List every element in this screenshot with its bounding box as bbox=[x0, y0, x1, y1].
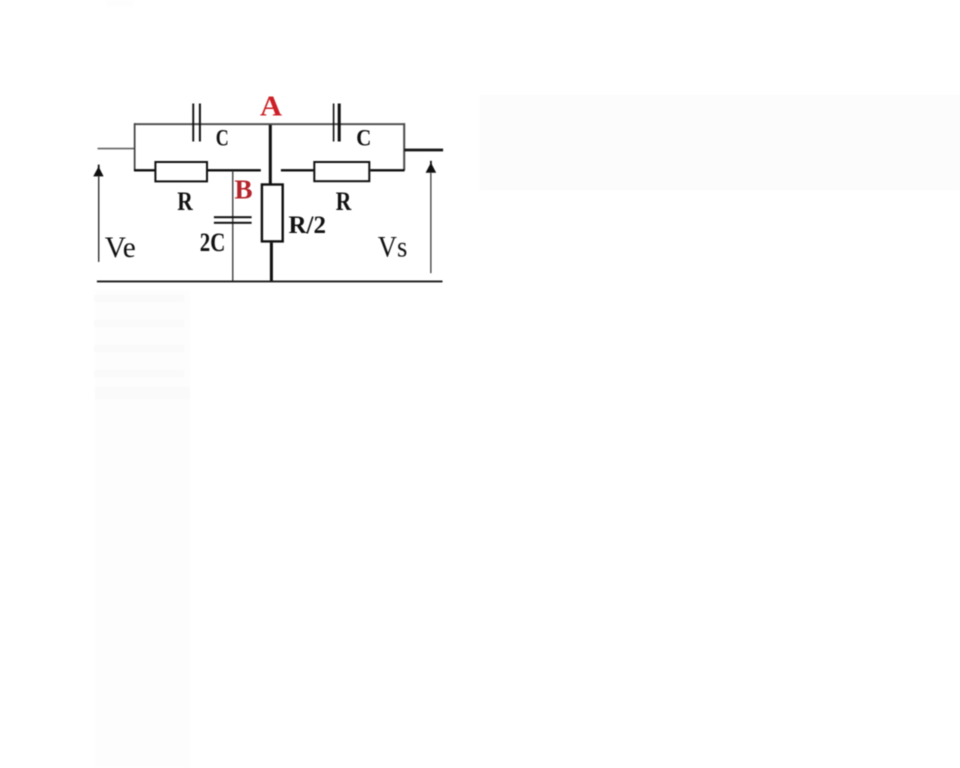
wire left box edge bbox=[134, 123, 136, 171]
wire mid right a bbox=[281, 169, 314, 171]
wire mid right b bbox=[370, 169, 404, 171]
wire top box line bbox=[134, 123, 405, 125]
svg-text:Vs: Vs bbox=[378, 231, 408, 264]
svg-text:R: R bbox=[177, 187, 193, 216]
wire 2C branch vertical bbox=[232, 171, 234, 281]
arrow Ve shaft bbox=[98, 176, 99, 262]
resistor R2 (right) bbox=[313, 161, 370, 182]
wire mid left a bbox=[134, 169, 156, 171]
capacitor C1 (left) plates bbox=[192, 104, 201, 142]
wire mid left b bbox=[208, 169, 261, 171]
arrow Vs head bbox=[426, 161, 437, 173]
arrow Ve head bbox=[93, 165, 103, 177]
svg-text:C: C bbox=[356, 126, 371, 151]
capacitor C3 (2C) plates bbox=[214, 216, 252, 224]
arrow Vs shaft bbox=[430, 173, 431, 273]
resistor R1 (left) bbox=[154, 161, 208, 182]
svg-text:A: A bbox=[260, 92, 283, 123]
wire bottom rail bbox=[97, 281, 443, 283]
wire right output lead bbox=[404, 149, 443, 152]
wire left input lead bbox=[98, 148, 135, 150]
svg-text:R/2: R/2 bbox=[289, 212, 327, 239]
svg-text:R: R bbox=[336, 187, 352, 216]
capacitor C2 (right) plates bbox=[333, 104, 341, 142]
wire node A vertical bbox=[269, 125, 272, 184]
resistor R3 (R/2 vertical) bbox=[261, 183, 284, 242]
wire right box edge bbox=[403, 123, 405, 170]
svg-text:C: C bbox=[216, 126, 229, 151]
wire below R/2 bbox=[270, 243, 273, 282]
svg-text:B: B bbox=[235, 175, 253, 205]
svg-text:Ve: Ve bbox=[105, 231, 136, 264]
svg-text:2C: 2C bbox=[200, 228, 226, 257]
